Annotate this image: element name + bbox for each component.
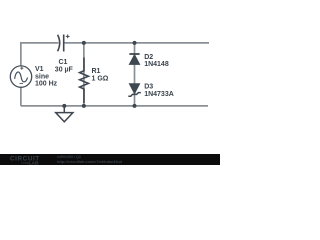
ground [56, 106, 73, 122]
node: R1 top junction [82, 41, 86, 45]
svg-text:∼▪›LAB: ∼▪›LAB [21, 161, 39, 165]
wire: R1 branch vertical [83, 43, 85, 106]
diode D3 (zener) [128, 84, 141, 96]
svg-text:C1: C1 [59, 59, 68, 66]
V1 minus mark [20, 82, 23, 84]
svg-text:sine: sine [35, 73, 49, 80]
node: ground junction [62, 104, 66, 108]
resistor R1 [80, 58, 89, 104]
svg-text:1N4148: 1N4148 [144, 61, 169, 68]
node: R1 bottom junction [82, 104, 86, 108]
watermark bar [0, 154, 220, 165]
wire: left vertical below V1 [20, 87, 22, 106]
wire: top rail left segment (corner at V1 to capacitor) [21, 43, 209, 106]
svg-text:e4502393 / Q3: e4502393 / Q3 [57, 155, 81, 159]
capacitor C1 [58, 35, 64, 52]
V1 plus mark [20, 67, 23, 70]
svg-text:V1: V1 [35, 66, 44, 73]
svg-text:1N4733A: 1N4733A [144, 91, 174, 98]
svg-text:1 GΩ: 1 GΩ [92, 76, 109, 83]
wire: bottom rail [21, 105, 208, 107]
node: diode bottom junction [133, 104, 137, 108]
svg-text:30 µF: 30 µF [55, 66, 74, 73]
voltage source V1 [10, 66, 31, 87]
svg-text:100 Hz: 100 Hz [35, 81, 58, 88]
C1 plus mark [66, 35, 70, 39]
wire: top rail right segment (capacitor to open end) [64, 42, 209, 44]
node junction dots [62, 41, 136, 108]
wire: diode branch vertical [134, 43, 136, 106]
svg-text:D3: D3 [144, 84, 153, 91]
svg-text:http://circuitlab.com/c7mhbdae: http://circuitlab.com/c7mhbdae43ud [57, 160, 123, 164]
svg-text:R1: R1 [92, 68, 101, 75]
diode D2 [129, 54, 139, 64]
node: diode top junction [133, 41, 137, 45]
